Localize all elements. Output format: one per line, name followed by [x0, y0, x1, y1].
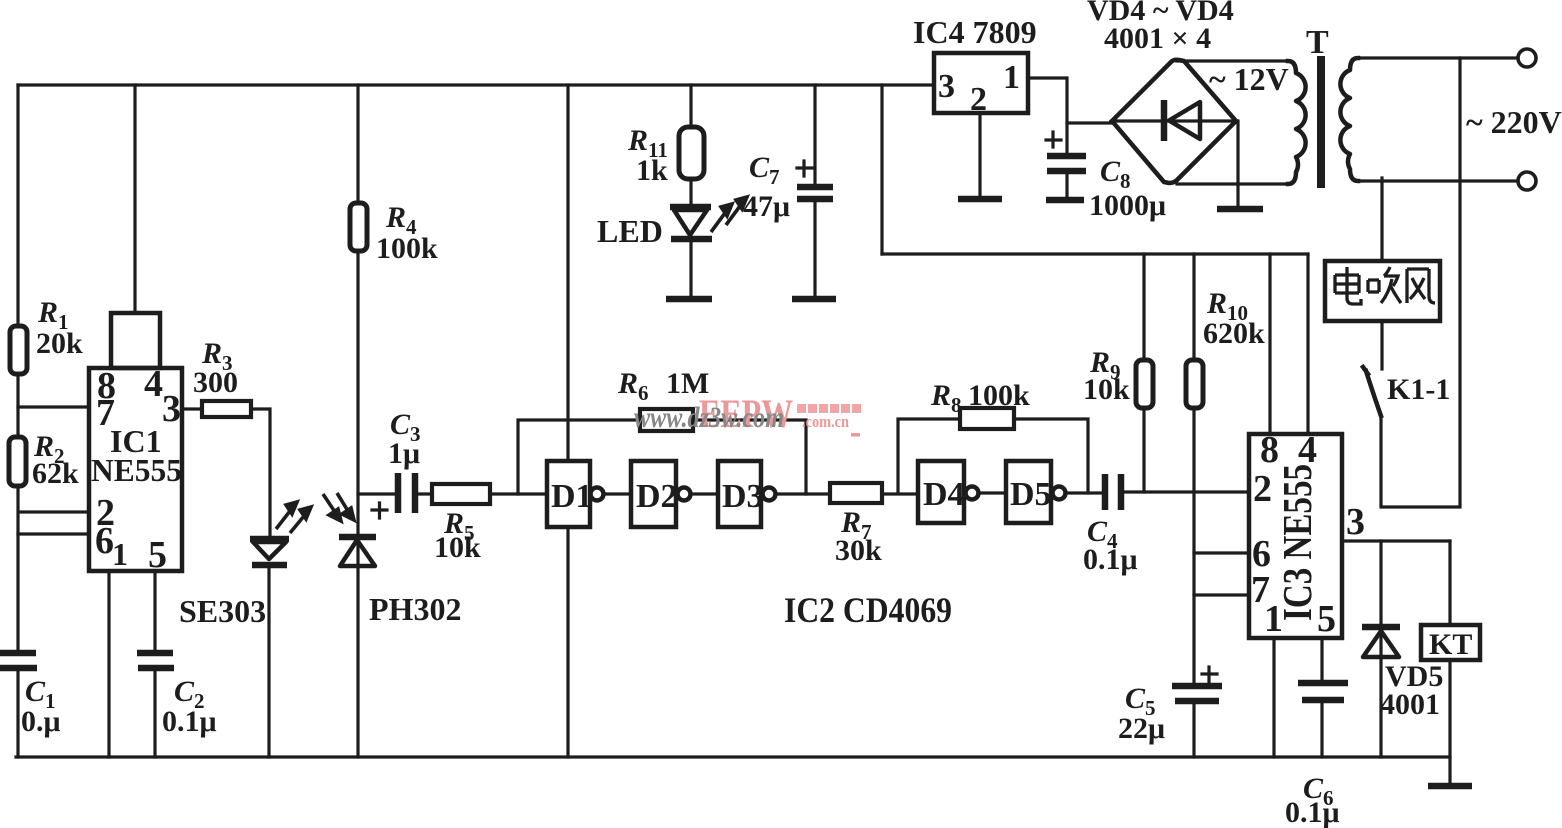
wire bridge to secondary bottom — [1177, 182, 1288, 185]
wire primary top to terminal — [1358, 56, 1518, 59]
transformer T secondary coil — [1288, 61, 1306, 184]
svg-text:1000μ: 1000μ — [1089, 189, 1166, 222]
wire D4 to D5 — [979, 491, 1006, 494]
svg-text:1k: 1k — [636, 154, 668, 187]
svg-text:0.μ: 0.μ — [21, 705, 61, 738]
wire +9V bus drop — [880, 85, 883, 254]
wire D5 to C4 — [1066, 491, 1103, 494]
svg-text:IC4 7809: IC4 7809 — [913, 14, 1037, 50]
ground below KT — [1428, 783, 1472, 790]
wire IC4 pin1 — [1028, 78, 1112, 123]
capacitor C1 — [0, 653, 61, 738]
resistor R8 feedback loop — [898, 379, 1088, 493]
watermark EEPW — [699, 391, 861, 437]
svg-text:0.1μ: 0.1μ — [162, 705, 217, 738]
wire bridge minus to ground — [1236, 121, 1239, 207]
wire bridge to secondary top — [1177, 59, 1288, 62]
SE303 emit arrows — [276, 502, 311, 533]
svg-text:10k: 10k — [1083, 373, 1130, 406]
resistor R4 — [350, 201, 438, 265]
svg-text:10k: 10k — [434, 531, 481, 564]
PH302 incoming arrows — [323, 493, 354, 521]
svg-text:D1: D1 — [551, 478, 593, 515]
wire IC3 pin8 — [1268, 254, 1271, 434]
svg-text:D5: D5 — [1010, 476, 1052, 513]
op-amp U1 : IC1 NE555 body — [89, 363, 182, 576]
hair dryer box 电吹风 — [1325, 261, 1440, 321]
wire pin3 of IC1 — [182, 409, 270, 536]
svg-text:300: 300 — [193, 366, 238, 399]
transformer T primary coil — [1340, 58, 1358, 181]
svg-text:20k: 20k — [36, 327, 83, 360]
inverter D1 — [547, 461, 604, 527]
svg-text:~ 12V: ~ 12V — [1209, 61, 1289, 97]
wire hair dryer top — [1380, 178, 1383, 261]
transformer T core — [1317, 56, 1325, 188]
wire pin5 of IC1 — [153, 571, 156, 757]
resistor R9 — [1083, 254, 1153, 492]
wire R4 drop — [356, 85, 359, 534]
capacitor C8 — [1046, 123, 1166, 222]
wire IC3 pin1 — [1272, 638, 1275, 757]
voltage regulator IC4 7809 — [913, 14, 1037, 118]
svg-text:3: 3 — [162, 388, 181, 430]
svg-text:PH302: PH302 — [369, 591, 461, 627]
capacitor C7 — [743, 85, 833, 296]
svg-text:LED: LED — [597, 213, 663, 249]
wire +9V horizontal bus — [882, 252, 1308, 255]
wire bottom ground rail — [16, 755, 1450, 758]
wire IC3 pin7 — [1194, 593, 1249, 596]
svg-text:100k: 100k — [376, 232, 438, 265]
svg-text:0.1μ: 0.1μ — [1285, 796, 1340, 828]
wire IC3 pin5 — [1320, 638, 1323, 757]
capacitor C5 — [1118, 667, 1222, 757]
ground below C7 — [792, 296, 836, 303]
capacitor C4 — [1083, 474, 1138, 576]
resistor R10 — [1186, 254, 1265, 686]
photodiode PH302 — [339, 537, 461, 757]
wire primary bottom to terminal — [1358, 179, 1518, 182]
wire PH302 node to C3 — [358, 492, 394, 495]
wire D1 to D2 — [604, 492, 631, 495]
svg-text:30k: 30k — [835, 534, 882, 567]
LED SE303 — [179, 539, 289, 757]
wire IC3 pin6 — [1194, 551, 1249, 554]
wire C3 to R5 — [419, 492, 432, 495]
ground below C8 — [1046, 197, 1084, 204]
wire R5 to D1 — [490, 492, 547, 495]
svg-text:47μ: 47μ — [743, 190, 790, 223]
resistor R2 — [9, 430, 79, 490]
capacitor C2 — [137, 653, 217, 738]
svg-text:3: 3 — [938, 68, 955, 105]
wire pin1 of IC1 — [107, 571, 110, 757]
wire 220V live drop — [1381, 58, 1460, 507]
svg-text:T: T — [1306, 24, 1329, 61]
svg-text:D3: D3 — [722, 478, 764, 515]
svg-text:4001 × 4: 4001 × 4 — [1104, 22, 1211, 55]
svg-text:620k: 620k — [1203, 317, 1265, 350]
resistor R5 — [432, 484, 490, 564]
capacitor C6 — [1285, 683, 1348, 828]
ground below LED — [666, 296, 712, 303]
inverter D5 — [1006, 461, 1066, 523]
resistor R7 — [830, 483, 882, 567]
switch K1-1 — [1363, 367, 1450, 416]
wire D3 to R7 — [776, 492, 830, 495]
svg-text:IC2 CD4069: IC2 CD4069 — [784, 590, 952, 630]
wire IC3 pin3 — [1342, 539, 1450, 542]
svg-text:3: 3 — [1346, 501, 1365, 543]
relay coil KT — [1421, 541, 1480, 785]
wire C4 to IC3 pin2 — [1125, 490, 1249, 493]
inverter D4 — [918, 461, 979, 523]
svg-text:K1-1: K1-1 — [1387, 373, 1450, 406]
svg-text:1μ: 1μ — [388, 437, 420, 470]
inverter D3 — [718, 461, 776, 527]
svg-text:100k: 100k — [968, 379, 1030, 412]
svg-text:www.dz3w.com: www.dz3w.com — [634, 401, 784, 434]
ground below IC4 — [958, 196, 1002, 203]
svg-text:2: 2 — [1253, 468, 1272, 510]
svg-text:D4: D4 — [923, 476, 965, 513]
svg-text:0.1μ: 0.1μ — [1083, 543, 1138, 576]
svg-text:~ 220V: ~ 220V — [1466, 104, 1562, 140]
resistor R11 — [627, 85, 704, 205]
wire D1 supply drop — [566, 85, 569, 757]
resistor R3 — [193, 337, 251, 417]
inverter D2 — [631, 461, 691, 527]
svg-text:22μ: 22μ — [1118, 712, 1165, 745]
wire R7 to D4 — [882, 492, 918, 495]
LED — [597, 207, 712, 296]
terminal bottom — [1518, 172, 1536, 190]
IC1 top box — [111, 313, 160, 368]
svg-text:1: 1 — [112, 536, 128, 572]
wire left column vertical — [16, 85, 19, 757]
svg-text:IC3 NE555: IC3 NE555 — [1274, 464, 1320, 621]
op-amp U3 : IC3 NE555 body — [1249, 429, 1342, 640]
terminal top — [1518, 49, 1536, 67]
wire D2 to D3 — [691, 492, 718, 495]
svg-text:NE555: NE555 — [91, 452, 182, 488]
svg-text:4001: 4001 — [1380, 688, 1440, 721]
svg-text:1: 1 — [1003, 59, 1020, 96]
resistor R6 feedback loop — [518, 367, 806, 494]
resistor R1 — [10, 296, 83, 374]
svg-text:4: 4 — [144, 363, 163, 405]
svg-text:SE303: SE303 — [179, 593, 266, 629]
LED emit arrows — [711, 197, 747, 232]
svg-text:.com.cn: .com.cn — [802, 412, 849, 431]
wire IC1 supply drop — [133, 85, 136, 313]
ground below bridge — [1217, 206, 1263, 213]
svg-text:KT: KT — [1429, 628, 1472, 661]
wire top supply rail — [18, 83, 934, 86]
diode VD5 — [1362, 541, 1443, 757]
svg-text:D2: D2 — [636, 478, 678, 515]
wire pin7 — [18, 405, 89, 408]
capacitor C3 — [372, 408, 421, 518]
wire IC4 pin2 to ground — [978, 113, 981, 197]
bridge rectifier VD4 — [1087, 0, 1236, 183]
wire pin2 — [20, 510, 89, 513]
svg-text:62k: 62k — [32, 457, 79, 490]
svg-text:5: 5 — [148, 534, 167, 576]
wire IC3 pin4 — [1306, 254, 1309, 434]
wire pin6 — [18, 532, 89, 535]
wire hair dryer bottom — [1380, 321, 1383, 369]
